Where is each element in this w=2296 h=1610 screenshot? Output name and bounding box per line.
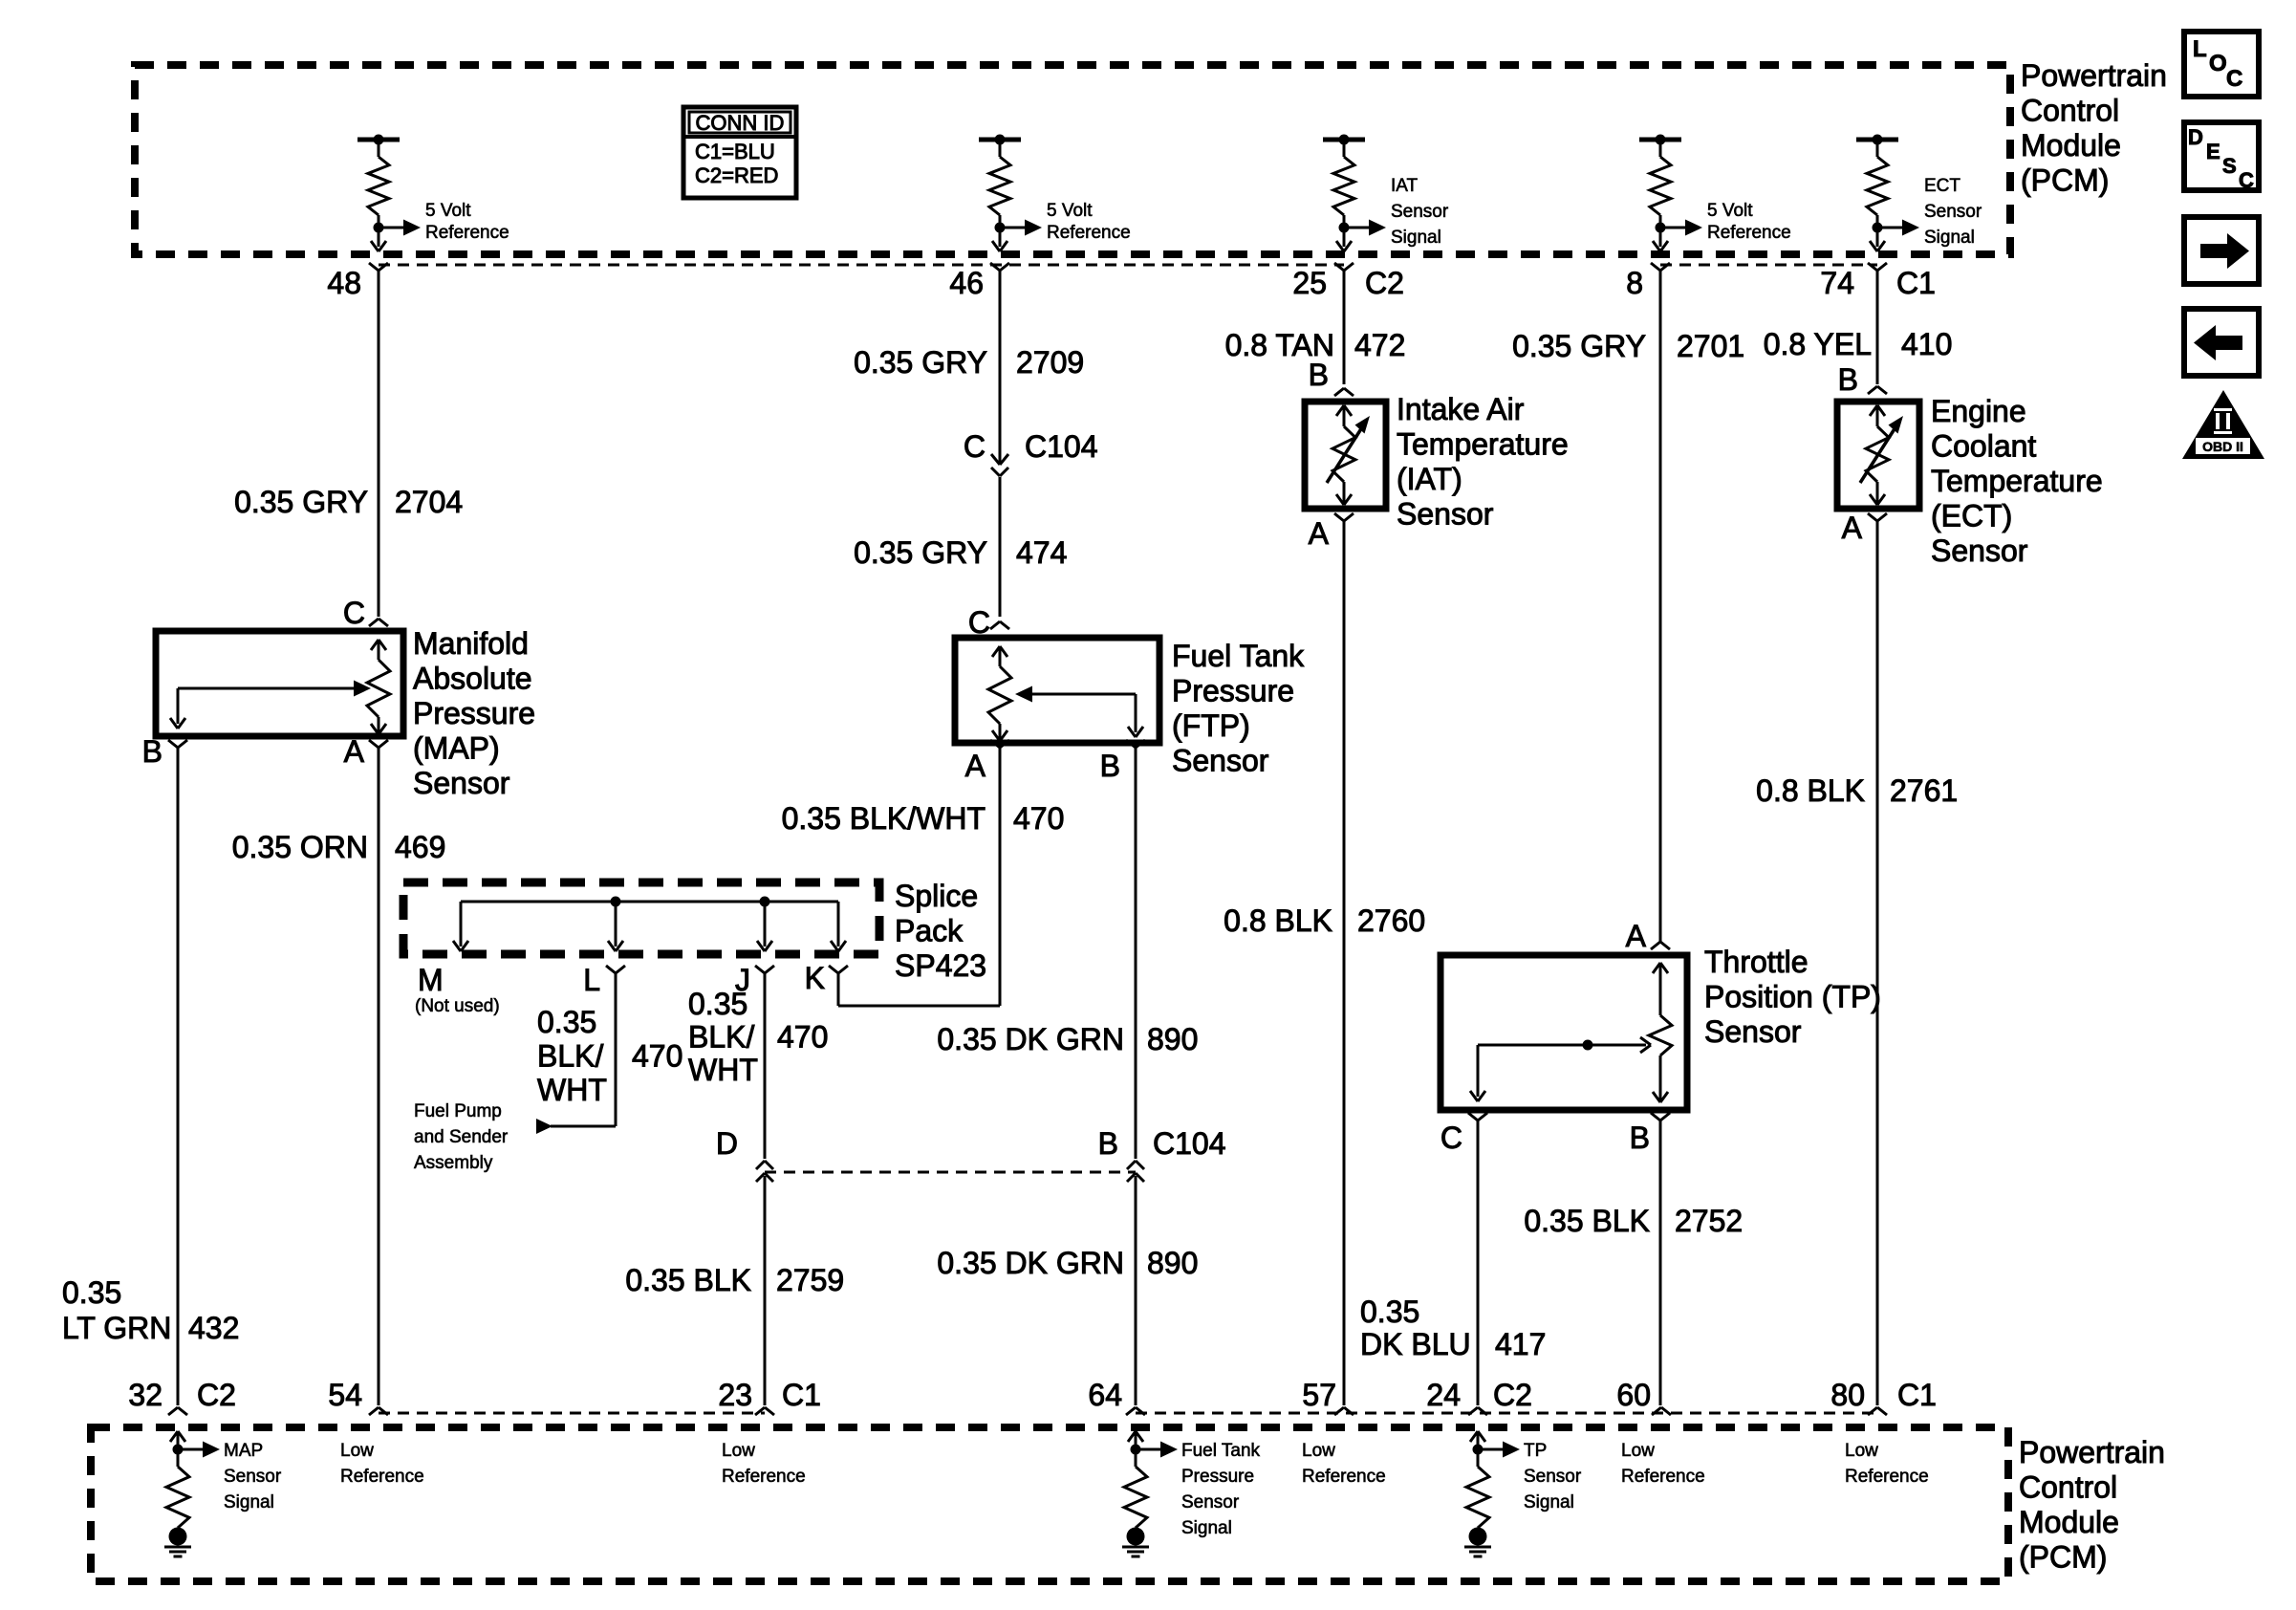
- svg-text:C104: C104: [1025, 429, 1098, 464]
- svg-text:Reference: Reference: [1707, 223, 1791, 243]
- svg-text:Sensor: Sensor: [1391, 202, 1449, 222]
- svg-text:A: A: [1626, 919, 1647, 953]
- svg-text:D: D: [2188, 125, 2203, 149]
- svg-text:C1: C1: [1897, 1378, 1937, 1412]
- svg-text:Reference: Reference: [1047, 223, 1131, 243]
- svg-text:(PCM): (PCM): [2019, 1540, 2107, 1575]
- svg-text:8: 8: [1626, 266, 1643, 300]
- svg-text:Assembly: Assembly: [414, 1153, 493, 1173]
- svg-text:23: 23: [718, 1378, 752, 1412]
- svg-text:Intake Air: Intake Air: [1397, 392, 1525, 426]
- svg-text:Low: Low: [1302, 1441, 1335, 1461]
- svg-text:2709: 2709: [1016, 345, 1084, 380]
- svg-text:5 Volt: 5 Volt: [425, 201, 471, 221]
- svg-text:0.35 DK GRN: 0.35 DK GRN: [937, 1246, 1124, 1280]
- svg-text:Signal: Signal: [224, 1492, 274, 1512]
- svg-text:Temperature: Temperature: [1397, 427, 1569, 462]
- svg-text:Sensor: Sensor: [1524, 1467, 1582, 1487]
- svg-text:Module: Module: [2021, 128, 2121, 163]
- svg-text:Sensor: Sensor: [1397, 497, 1494, 532]
- svg-text:and Sender: and Sender: [414, 1127, 509, 1147]
- svg-text:0.35 DK GRN: 0.35 DK GRN: [937, 1022, 1124, 1056]
- svg-text:(FTP): (FTP): [1172, 708, 1250, 743]
- svg-text:Pressure: Pressure: [413, 696, 535, 730]
- svg-text:Throttle: Throttle: [1704, 945, 1808, 979]
- svg-text:A: A: [965, 749, 986, 783]
- svg-text:(ECT): (ECT): [1931, 499, 2012, 533]
- svg-text:C2: C2: [197, 1378, 236, 1412]
- svg-text:DK BLU: DK BLU: [1360, 1327, 1471, 1361]
- svg-text:B: B: [142, 734, 162, 769]
- svg-text:Powertrain: Powertrain: [2019, 1435, 2165, 1469]
- svg-text:890: 890: [1147, 1246, 1198, 1280]
- svg-text:Sensor: Sensor: [1704, 1014, 1802, 1049]
- svg-text:K: K: [805, 961, 825, 995]
- svg-text:Reference: Reference: [1302, 1467, 1386, 1487]
- svg-text:C1: C1: [782, 1378, 821, 1412]
- svg-text:WHT: WHT: [688, 1053, 758, 1087]
- svg-text:Manifold: Manifold: [413, 626, 529, 661]
- svg-text:410: 410: [1901, 327, 1952, 361]
- svg-text:0.35: 0.35: [537, 1005, 596, 1039]
- svg-text:0.35 GRY: 0.35 GRY: [854, 535, 987, 570]
- svg-text:25: 25: [1292, 266, 1327, 300]
- svg-text:470: 470: [777, 1020, 828, 1055]
- svg-text:Sensor: Sensor: [1931, 533, 2028, 568]
- svg-text:Sensor: Sensor: [1924, 202, 1982, 222]
- svg-text:Reference: Reference: [1845, 1467, 1929, 1487]
- svg-text:Pressure: Pressure: [1181, 1467, 1254, 1487]
- svg-text:Position (TP): Position (TP): [1704, 980, 1881, 1014]
- svg-text:B: B: [1309, 358, 1329, 392]
- svg-text:472: 472: [1354, 328, 1405, 362]
- svg-text:B: B: [1630, 1120, 1650, 1155]
- svg-text:MAP: MAP: [224, 1441, 263, 1461]
- svg-text:C: C: [1440, 1120, 1462, 1155]
- svg-text:OBD II: OBD II: [2202, 439, 2243, 454]
- svg-text:46: 46: [949, 266, 984, 300]
- svg-text:Low: Low: [1845, 1441, 1878, 1461]
- svg-text:Control: Control: [2021, 94, 2119, 128]
- svg-text:C2: C2: [1493, 1378, 1532, 1412]
- svg-text:0.35 ORN: 0.35 ORN: [232, 830, 368, 864]
- svg-text:5 Volt: 5 Volt: [1707, 201, 1753, 221]
- svg-text:(Not used): (Not used): [415, 996, 500, 1016]
- svg-text:B: B: [1838, 362, 1858, 397]
- svg-text:Splice: Splice: [895, 879, 978, 913]
- svg-text:C: C: [2226, 66, 2242, 92]
- svg-text:Sensor: Sensor: [1172, 744, 1269, 778]
- svg-text:D: D: [716, 1126, 738, 1161]
- svg-text:Reference: Reference: [340, 1467, 424, 1487]
- svg-text:Low: Low: [1621, 1441, 1655, 1461]
- svg-text:Signal: Signal: [1391, 228, 1441, 248]
- svg-text:469: 469: [395, 830, 445, 864]
- svg-text:M: M: [418, 963, 444, 997]
- svg-text:(PCM): (PCM): [2021, 163, 2109, 198]
- svg-text:0.8 BLK: 0.8 BLK: [1224, 903, 1332, 938]
- svg-text:C: C: [343, 596, 365, 630]
- svg-text:Powertrain: Powertrain: [2021, 58, 2167, 93]
- svg-text:470: 470: [632, 1039, 682, 1074]
- svg-text:Reference: Reference: [1621, 1467, 1705, 1487]
- svg-text:Sensor: Sensor: [224, 1467, 282, 1487]
- svg-text:0.35: 0.35: [62, 1275, 121, 1310]
- svg-text:(MAP): (MAP): [413, 731, 500, 766]
- svg-text:0.35 GRY: 0.35 GRY: [1512, 329, 1646, 363]
- svg-text:Pressure: Pressure: [1172, 674, 1294, 708]
- svg-text:C1=BLU: C1=BLU: [695, 140, 775, 163]
- svg-text:Engine: Engine: [1931, 394, 2026, 428]
- svg-text:Coolant: Coolant: [1931, 429, 2036, 464]
- svg-text:A: A: [344, 734, 365, 769]
- svg-text:48: 48: [327, 266, 361, 300]
- svg-text:C: C: [2239, 168, 2254, 192]
- svg-text:0.35 BLK/WHT: 0.35 BLK/WHT: [782, 801, 986, 836]
- svg-text:Sensor: Sensor: [1181, 1492, 1240, 1512]
- svg-text:474: 474: [1016, 535, 1067, 570]
- svg-text:0.8 YEL: 0.8 YEL: [1764, 327, 1872, 361]
- svg-text:Reference: Reference: [425, 223, 509, 243]
- svg-text:Control: Control: [2019, 1470, 2117, 1505]
- svg-text:0.35 BLK: 0.35 BLK: [625, 1263, 751, 1297]
- svg-text:Temperature: Temperature: [1931, 464, 2103, 498]
- svg-text:L: L: [583, 963, 600, 997]
- svg-text:B: B: [1100, 749, 1120, 783]
- svg-text:5 Volt: 5 Volt: [1047, 201, 1093, 221]
- svg-text:O: O: [2209, 51, 2227, 76]
- svg-text:SP423: SP423: [895, 948, 986, 983]
- svg-text:C104: C104: [1153, 1126, 1226, 1161]
- svg-text:54: 54: [328, 1378, 362, 1412]
- svg-text:0.8 BLK: 0.8 BLK: [1756, 773, 1865, 808]
- svg-text:Sensor: Sensor: [413, 766, 510, 800]
- svg-text:Reference: Reference: [722, 1467, 806, 1487]
- svg-text:Fuel Tank: Fuel Tank: [1172, 639, 1305, 673]
- svg-text:Low: Low: [340, 1441, 374, 1461]
- svg-text:Fuel Tank: Fuel Tank: [1181, 1441, 1261, 1461]
- svg-text:L: L: [2193, 36, 2207, 62]
- svg-text:C1: C1: [1896, 266, 1936, 300]
- svg-text:470: 470: [1013, 801, 1064, 836]
- svg-text:60: 60: [1616, 1378, 1651, 1412]
- svg-text:Low: Low: [722, 1441, 755, 1461]
- svg-text:74: 74: [1820, 266, 1854, 300]
- svg-text:E: E: [2206, 140, 2220, 163]
- svg-text:2761: 2761: [1890, 773, 1958, 808]
- svg-text:A: A: [1842, 511, 1863, 545]
- svg-text:2701: 2701: [1677, 329, 1744, 363]
- svg-text:BLK/: BLK/: [537, 1039, 603, 1074]
- svg-text:BLK/: BLK/: [688, 1020, 754, 1055]
- svg-text:IAT: IAT: [1391, 176, 1419, 196]
- svg-text:S: S: [2222, 154, 2237, 178]
- svg-text:2704: 2704: [395, 485, 463, 519]
- svg-text:C: C: [964, 429, 986, 464]
- svg-text:64: 64: [1088, 1378, 1122, 1412]
- svg-text:2760: 2760: [1357, 903, 1425, 938]
- svg-text:80: 80: [1830, 1378, 1865, 1412]
- svg-text:0.35 GRY: 0.35 GRY: [234, 485, 368, 519]
- svg-text:2752: 2752: [1675, 1204, 1743, 1238]
- svg-text:890: 890: [1147, 1022, 1198, 1056]
- svg-text:32: 32: [128, 1378, 162, 1412]
- svg-text:CONN ID: CONN ID: [696, 111, 785, 135]
- svg-text:TP: TP: [1524, 1441, 1547, 1461]
- svg-text:LT GRN: LT GRN: [62, 1311, 171, 1345]
- svg-text:B: B: [1098, 1126, 1118, 1161]
- svg-text:432: 432: [188, 1311, 239, 1345]
- svg-text:0.35 GRY: 0.35 GRY: [854, 345, 987, 380]
- svg-text:C2: C2: [1365, 266, 1404, 300]
- svg-text:0.35: 0.35: [688, 987, 747, 1021]
- svg-text:Pack: Pack: [895, 914, 964, 948]
- svg-text:24: 24: [1426, 1378, 1461, 1412]
- svg-text:WHT: WHT: [537, 1073, 607, 1107]
- svg-text:Signal: Signal: [1181, 1518, 1232, 1538]
- svg-text:2759: 2759: [776, 1263, 844, 1297]
- svg-text:Absolute: Absolute: [413, 662, 532, 696]
- svg-text:57: 57: [1302, 1378, 1336, 1412]
- svg-text:417: 417: [1495, 1327, 1546, 1361]
- svg-text:C2=RED: C2=RED: [695, 163, 778, 187]
- svg-text:A: A: [1309, 516, 1330, 551]
- svg-text:Signal: Signal: [1524, 1492, 1574, 1512]
- svg-text:Module: Module: [2019, 1505, 2119, 1539]
- svg-text:0.35 BLK: 0.35 BLK: [1524, 1204, 1650, 1238]
- svg-text:Fuel Pump: Fuel Pump: [414, 1101, 502, 1121]
- svg-text:ECT: ECT: [1924, 176, 1960, 196]
- svg-text:0.35: 0.35: [1360, 1295, 1419, 1329]
- svg-text:(IAT): (IAT): [1397, 462, 1462, 496]
- svg-text:Signal: Signal: [1924, 228, 1975, 248]
